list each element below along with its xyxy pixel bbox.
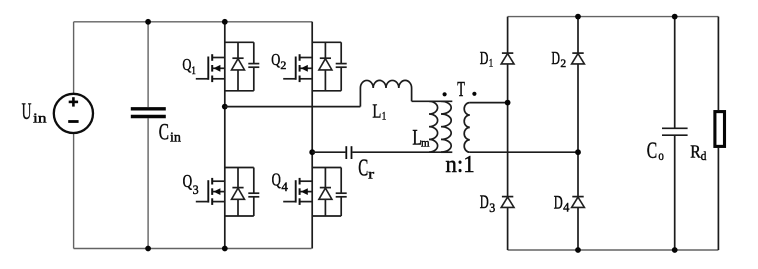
resistor Rd body bbox=[715, 112, 725, 147]
wire leg D1-D3 vertical bbox=[507, 17, 509, 250]
junction dot Cin bottom bbox=[145, 246, 151, 252]
svg-text:Q: Q bbox=[272, 170, 281, 190]
svg-text:D: D bbox=[554, 193, 563, 213]
svg-text:2: 2 bbox=[280, 58, 286, 72]
diode D2 bbox=[572, 53, 585, 64]
capacitor Co plates bbox=[662, 128, 688, 135]
wire primary bottom bar bbox=[441, 151, 452, 153]
diode D3 bbox=[501, 197, 514, 208]
capacitor Co bottom lead bbox=[674, 135, 676, 250]
capacitor Cr bbox=[346, 146, 351, 159]
svg-text:D: D bbox=[480, 193, 489, 213]
svg-text:Q: Q bbox=[271, 50, 280, 69]
label Co bbox=[647, 138, 664, 164]
capacitor Cin top lead bbox=[147, 22, 149, 107]
svg-text:r: r bbox=[368, 166, 375, 181]
wire primary top bar bbox=[412, 100, 453, 102]
label Uin bbox=[22, 99, 47, 126]
svg-text:T: T bbox=[457, 77, 465, 101]
label Q3 bbox=[183, 171, 199, 197]
voltage source Uin circle bbox=[54, 94, 93, 133]
svg-text:4: 4 bbox=[281, 180, 288, 194]
label D4 bbox=[554, 193, 570, 214]
svg-text:1: 1 bbox=[489, 55, 493, 69]
label Cin bbox=[159, 119, 181, 145]
label D1 bbox=[480, 48, 493, 70]
polarity dot secondary bbox=[472, 92, 476, 96]
label Rd bbox=[690, 142, 707, 164]
wire leg Q1-Q3 vertical bbox=[224, 22, 226, 249]
transistor Q4 bbox=[283, 168, 347, 217]
junction dot rectifier input bottom bbox=[575, 149, 581, 155]
svg-text:3: 3 bbox=[193, 183, 199, 197]
svg-text:C: C bbox=[159, 119, 169, 145]
svg-text:2: 2 bbox=[560, 56, 566, 70]
transistor Q2 bbox=[283, 42, 347, 91]
wire left edge lower (Uin bottom lead) bbox=[73, 133, 75, 249]
svg-text:4: 4 bbox=[563, 201, 570, 215]
label Q2 bbox=[271, 50, 286, 72]
svg-text:Q: Q bbox=[183, 171, 193, 191]
resistor Rd top lead bbox=[717, 17, 719, 110]
svg-text:o: o bbox=[658, 148, 664, 163]
svg-text:in: in bbox=[170, 131, 181, 146]
wire secondary top to rectifier bbox=[470, 102, 508, 104]
wire left edge upper (Uin top lead) bbox=[73, 22, 75, 94]
label Q4 bbox=[272, 170, 289, 195]
voltage source minus sign bbox=[68, 120, 78, 123]
junction dot D2 top rail bbox=[575, 14, 581, 20]
wire leg D2-D4 vertical bbox=[577, 17, 579, 250]
label L1 bbox=[372, 100, 386, 122]
svg-text:1: 1 bbox=[382, 111, 387, 123]
capacitor Cin plates bbox=[131, 109, 166, 117]
label Lm bbox=[412, 124, 430, 149]
junction dot Co top bbox=[672, 14, 678, 20]
label D3 bbox=[480, 193, 495, 215]
wire node A to L1 bbox=[225, 106, 361, 108]
svg-text:in: in bbox=[33, 112, 47, 127]
label D2 bbox=[551, 48, 566, 70]
wire bottom rail right circuit bbox=[508, 249, 719, 251]
svg-text:R: R bbox=[690, 142, 701, 162]
voltage source plus sign bbox=[69, 97, 78, 106]
svg-text:C: C bbox=[647, 138, 657, 164]
wire Cr right to transformer primary bottom bbox=[352, 151, 448, 153]
inductor L1 bbox=[360, 80, 411, 106]
wire top rail left bridge bbox=[74, 21, 313, 23]
wire top rail right circuit bbox=[508, 16, 719, 18]
diode D4 bbox=[572, 197, 585, 208]
label Q1 bbox=[182, 55, 196, 77]
svg-text:1: 1 bbox=[191, 63, 196, 77]
junction dot Co bottom bbox=[672, 247, 678, 253]
inductor Lm (magnetizing) winding bbox=[429, 101, 438, 152]
wire bottom rail left bridge bbox=[74, 248, 312, 250]
wire leg Q2-Q4 vertical bbox=[311, 22, 313, 249]
svg-text:D: D bbox=[551, 48, 560, 68]
capacitor Co top lead bbox=[674, 17, 676, 129]
transistor Q3 bbox=[196, 168, 259, 217]
wire Cr left (node B to Cr) bbox=[312, 151, 345, 153]
svg-text:D: D bbox=[480, 48, 489, 68]
svg-text:Q: Q bbox=[182, 55, 191, 74]
svg-text:C: C bbox=[358, 155, 368, 181]
svg-text:3: 3 bbox=[489, 201, 495, 215]
junction dot Q1 leg top bbox=[222, 19, 228, 25]
node A junction dot (Q1/Q3 midpoint) bbox=[222, 104, 228, 110]
svg-text:L: L bbox=[372, 100, 381, 122]
svg-text:n:1: n:1 bbox=[445, 152, 474, 178]
junction dot D4 bottom rail bbox=[575, 247, 581, 253]
junction dot rectifier input top bbox=[505, 100, 511, 106]
junction dot Q3 leg bottom bbox=[222, 246, 228, 252]
svg-text:U: U bbox=[22, 99, 32, 124]
transistor Q1 bbox=[196, 42, 259, 91]
transformer T secondary winding bbox=[464, 103, 470, 153]
resistor Rd bottom lead bbox=[717, 148, 719, 250]
capacitor Cin bottom lead bbox=[147, 118, 149, 248]
node B junction dot (Q4 drain, Cr tap) bbox=[309, 149, 315, 155]
svg-text:d: d bbox=[701, 148, 707, 163]
transformer T primary winding bbox=[441, 101, 451, 152]
polarity dot primary bbox=[443, 92, 447, 96]
junction dot Cin top bbox=[145, 19, 151, 25]
svg-text:m: m bbox=[421, 135, 430, 149]
diode D1 bbox=[501, 53, 514, 64]
wire secondary bottom to rectifier bbox=[470, 151, 578, 153]
label Cr bbox=[358, 155, 375, 181]
